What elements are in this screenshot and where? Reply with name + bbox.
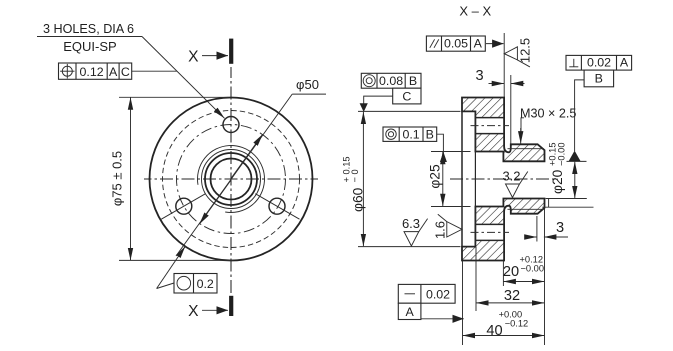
- parallelism leader arrow: [486, 43, 504, 45]
- svg-text:0.2: 0.2: [197, 277, 214, 291]
- svg-text:12.5: 12.5: [518, 38, 533, 63]
- flange material bottom hatched: [462, 199, 545, 261]
- svg-text:B: B: [595, 72, 603, 86]
- concentricity 0.1 leader: [437, 134, 444, 162]
- phi75 dimension line: [130, 97, 132, 260]
- straightness FCF: [398, 284, 455, 303]
- bore circle phi20: [211, 159, 252, 200]
- right 3 dim right segment: [544, 236, 568, 238]
- phi50 leader shoulder: [292, 93, 326, 95]
- phi75 text: [110, 151, 125, 206]
- svg-text:3: 3: [556, 220, 564, 236]
- phi50 dimension diagonal: [176, 94, 292, 256]
- datum C leader to phi60 dim: [364, 96, 393, 103]
- svg-text:0.02: 0.02: [426, 287, 450, 301]
- svg-text:X – X: X – X: [459, 4, 491, 19]
- surface 3.2 symbol: [506, 184, 520, 198]
- svg-text:− 0: − 0: [350, 169, 360, 182]
- svg-text:A: A: [109, 65, 118, 79]
- bolt hole bottom edges: [475, 223, 504, 225]
- bolt hole top centerline: [471, 125, 510, 127]
- datum A leader arrow: [421, 318, 464, 320]
- phi25 dimension line: [442, 152, 444, 206]
- svg-text:B: B: [426, 128, 434, 142]
- leader diagonal to top hole: [142, 37, 225, 119]
- svg-text:0.02: 0.02: [587, 55, 611, 69]
- left face vertical extension up: [503, 33, 505, 97]
- svg-text:φ50: φ50: [296, 77, 319, 92]
- phi25 top extension: [431, 151, 471, 153]
- svg-text:3.2: 3.2: [502, 169, 520, 184]
- circularity leader: [157, 283, 174, 289]
- right 3 dim left segment: [525, 236, 537, 238]
- circularity FCF box: [174, 274, 217, 294]
- phi60 bottom extension: [358, 246, 461, 248]
- bolt hole bottom centerline: [471, 231, 510, 233]
- phi60 label: [342, 156, 366, 212]
- X cutting plane top bar: [229, 39, 233, 64]
- svg-text:B: B: [409, 74, 417, 88]
- svg-text:φ60: φ60: [351, 187, 366, 212]
- phi50 arrow lower: [199, 180, 231, 224]
- svg-text:X: X: [188, 303, 199, 320]
- phi20 bottom extension: [546, 198, 587, 200]
- thread start extension up: [510, 75, 512, 144]
- surface 1.6 text: [432, 221, 447, 239]
- recess opening edge line: [461, 111, 463, 246]
- surface 6.3 symbol: [404, 232, 419, 246]
- bolt circle phi50 dash-dot: [177, 125, 286, 234]
- bore circle phi25: [205, 153, 257, 205]
- phi60 top extension: [358, 110, 461, 112]
- svg-text:φ25: φ25: [428, 164, 443, 189]
- svg-text:−0.12: −0.12: [505, 319, 529, 329]
- position FCF leader: [132, 70, 177, 72]
- svg-text:0.12: 0.12: [80, 65, 104, 79]
- thread root circle: [202, 150, 261, 209]
- horizontal centerline: [144, 178, 318, 180]
- concentricity 0.08 FCF: [361, 73, 421, 88]
- svg-text:6.3: 6.3: [402, 216, 420, 231]
- parallelism FCF box: [426, 36, 485, 51]
- connector small vertical: [548, 199, 550, 208]
- svg-text:0.05: 0.05: [444, 37, 468, 51]
- phi50 arrow upper: [231, 134, 263, 178]
- svg-text:40: 40: [486, 323, 502, 339]
- section horizontal centerline: [450, 178, 558, 180]
- radial tick lower-left hole: [161, 194, 205, 220]
- surface 1.6 symbol: [447, 222, 462, 237]
- dim 32 line: [476, 302, 545, 304]
- part outline top: [462, 98, 545, 162]
- phi60 dimension line: [362, 112, 364, 247]
- vertical centerline: [230, 67, 232, 295]
- right 3 ext line chamfer: [536, 216, 538, 242]
- hole lower-left: [176, 198, 192, 214]
- circularity leader arrow: [157, 246, 186, 288]
- svg-text:3: 3: [475, 68, 483, 84]
- phi75 bottom extension line: [119, 259, 234, 261]
- X bottom arrow: [202, 309, 228, 311]
- phi25 bottom extension: [431, 206, 471, 208]
- surface 12.5 symbol: [504, 47, 517, 60]
- datum B leader: [575, 80, 585, 151]
- svg-text:0.1: 0.1: [402, 128, 419, 142]
- X cutting plane bottom bar: [229, 296, 233, 316]
- phi20 dimension line: [574, 162, 576, 199]
- outer circle phi75: [150, 98, 313, 261]
- svg-text:φ20: φ20: [550, 169, 565, 194]
- datum A box: [398, 303, 421, 319]
- svg-text:A: A: [474, 37, 483, 51]
- extension right end down: [544, 209, 546, 346]
- thread root line bottom: [508, 208, 544, 210]
- hole lower-right: [269, 198, 285, 214]
- datum C box: [393, 88, 421, 104]
- svg-text:20: 20: [503, 264, 519, 280]
- top 3 dim right part: [511, 83, 525, 85]
- datum B triangle: [569, 151, 581, 162]
- svg-text:C: C: [121, 65, 130, 79]
- svg-text:φ75 ± 0.5: φ75 ± 0.5: [110, 151, 125, 206]
- X top arrow: [202, 55, 228, 57]
- svg-text:32: 32: [504, 288, 520, 304]
- svg-text:A: A: [620, 55, 629, 69]
- radial tick lower-right hole: [255, 194, 299, 220]
- phi75 top extension line: [119, 96, 229, 98]
- chamfer corner extension: [542, 206, 593, 208]
- svg-text:0.08: 0.08: [379, 74, 403, 88]
- hole top: [223, 117, 239, 133]
- svg-text:−0.00: −0.00: [557, 142, 567, 166]
- part outline bottom: [462, 199, 545, 261]
- svg-text:M30 × 2.5: M30 × 2.5: [520, 107, 576, 121]
- position FCF box: [59, 63, 132, 79]
- extension left face down: [462, 261, 464, 345]
- svg-text:3 HOLES, DIA 6: 3 HOLES, DIA 6: [43, 22, 134, 36]
- svg-text:EQUI-SP: EQUI-SP: [63, 39, 116, 54]
- dim 40 line: [463, 335, 545, 337]
- top 3 dim left part: [489, 83, 505, 85]
- svg-text:1.6: 1.6: [432, 221, 447, 239]
- recess floor inner edge line: [474, 111, 476, 246]
- extension step down: [502, 261, 504, 286]
- surface 12.5 text: [518, 38, 533, 63]
- phi25 label: [428, 164, 443, 189]
- svg-text:−0.00: −0.00: [521, 264, 545, 274]
- bolt hole top edges: [475, 117, 504, 119]
- thread major 3/4 arc: [197, 146, 264, 213]
- svg-text:A: A: [405, 305, 414, 319]
- thread root line top: [508, 148, 544, 150]
- dashed circle phi60 recess: [163, 111, 300, 248]
- datum B box under FCF: [584, 70, 614, 87]
- phi20 label: [548, 142, 567, 194]
- dim 20 line: [503, 281, 544, 283]
- perpendicularity FCF box: [566, 55, 632, 70]
- M30 leader: [521, 118, 524, 138]
- extension recess face down: [475, 247, 477, 311]
- leader shoulder under label: [37, 36, 142, 38]
- svg-text:X: X: [188, 48, 199, 65]
- svg-text:C: C: [402, 89, 411, 103]
- concentricity 0.1 FCF: [383, 127, 437, 142]
- phi20 top extension: [567, 160, 587, 162]
- flange material top hatched: [462, 98, 545, 162]
